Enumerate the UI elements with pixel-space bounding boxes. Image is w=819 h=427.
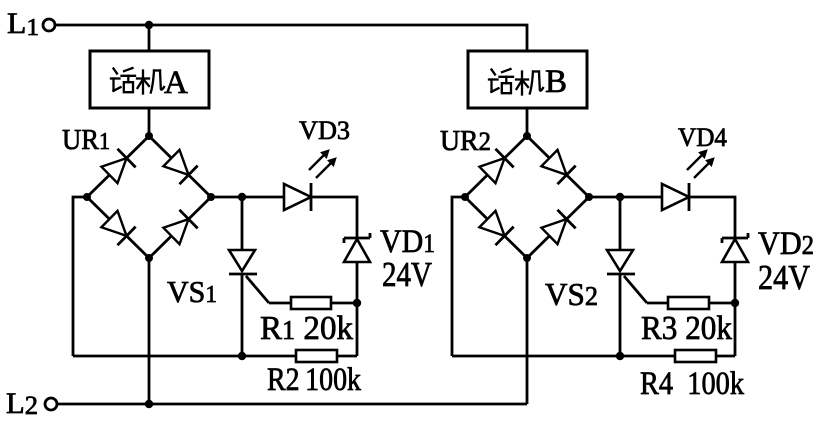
wire bottom rail 2 left (452, 355, 675, 358)
wire R1 to riser (331, 302, 357, 305)
svg-text:R2 100k: R2 100k (267, 362, 361, 398)
node junction L2 (145, 400, 153, 408)
svg-text:VD4: VD4 (678, 123, 727, 152)
svg-text:VD2: VD2 (758, 226, 814, 262)
svg-text:24V: 24V (382, 255, 432, 294)
svg-text:R3 20k: R3 20k (641, 310, 732, 347)
thyristor VS2 (607, 197, 647, 356)
svg-text:A: A (164, 65, 188, 101)
terminal L2 (45, 398, 57, 410)
label 话机B (489, 64, 567, 100)
wire bridge2 right stub (589, 196, 620, 199)
phone box A (90, 51, 209, 108)
resistor R1 (291, 297, 331, 309)
svg-text:R1 20k: R1 20k (260, 310, 353, 347)
wire bottom rail left (73, 355, 296, 358)
wire bridge2 left stub and left riser (452, 197, 465, 356)
wire bridge1 bottom drop (148, 258, 151, 404)
wire right riser 2 lower (734, 262, 737, 356)
wire gate to R1 (269, 302, 291, 305)
phone box B (468, 51, 587, 108)
resistor R4 (675, 350, 716, 362)
node A1 junction (238, 193, 246, 201)
wire to VD4 (620, 196, 662, 199)
node R3-right junction (731, 299, 739, 307)
wire R4 to riser corner (716, 355, 735, 358)
wire VD3 to right riser (311, 197, 357, 238)
svg-text:B: B (545, 64, 567, 100)
resistor R2 (296, 350, 337, 362)
wire R3 to riser (709, 302, 735, 305)
svg-text:VD3: VD3 (299, 116, 350, 145)
wire bridge2 bottom drop (526, 258, 529, 404)
thyristor VS1 (229, 197, 269, 356)
zener diode VD2 (722, 233, 748, 262)
svg-text:UR2: UR2 (440, 125, 491, 157)
wire phone B to bridge (526, 108, 529, 136)
label 话机A (111, 65, 188, 101)
wire right riser lower (356, 262, 359, 356)
node A2 junction (616, 193, 624, 201)
wire phone A to bridge (148, 108, 151, 136)
bridge rectifier UR2 (461, 132, 593, 262)
terminal L1 (43, 19, 55, 31)
node VS1-bottom junction (238, 352, 246, 360)
svg-text:24V: 24V (758, 258, 810, 297)
wire junction to phone A (148, 25, 151, 51)
svg-text:L2: L2 (6, 387, 38, 420)
node junction L1-phoneA (145, 21, 153, 29)
LED VD4 (662, 150, 714, 211)
svg-text:R4 100k: R4 100k (640, 366, 744, 402)
wire bridge1 right stub (211, 196, 242, 199)
svg-text:UR1: UR1 (62, 124, 110, 156)
bridge rectifier UR1 (83, 132, 215, 262)
wire VD4 to right riser (689, 197, 735, 238)
wire bridge1 left stub and left riser (73, 197, 87, 356)
wire L1 line (55, 25, 527, 51)
wire R2 to riser corner (337, 355, 357, 358)
resistor R3 (668, 297, 709, 309)
LED VD3 (284, 150, 336, 211)
wire L2 line (57, 403, 527, 406)
wire to VD3 (242, 196, 284, 199)
zener diode VD1 (344, 233, 370, 262)
wire gate to R3 (647, 302, 668, 305)
svg-text:VS2: VS2 (545, 276, 598, 312)
node R1-right junction (353, 299, 361, 307)
node VS2-bottom junction (616, 352, 624, 360)
